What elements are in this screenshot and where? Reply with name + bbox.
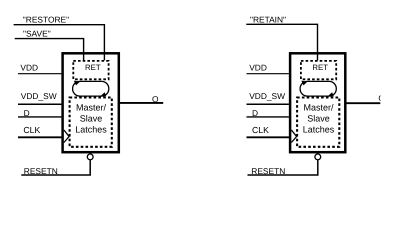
wire VDD (U2) bbox=[247, 73, 289, 75]
flip-flop block U1 outline bbox=[63, 53, 119, 152]
wire RESETN bbox=[21, 160, 90, 175]
wire VDD_SW (U2) bbox=[247, 103, 289, 105]
master/slave latches box (U2) bbox=[297, 98, 339, 147]
data-exchange loop between RET and latches (U2) bbox=[300, 81, 336, 96]
wire RETAIN net bbox=[246, 24, 317, 60]
svg-text:"SAVE": "SAVE" bbox=[23, 29, 51, 39]
loop arrowhead upper-left bbox=[74, 81, 80, 86]
svg-text:RESETN: RESETN bbox=[251, 166, 285, 176]
retention latch box RET (U1) bbox=[73, 61, 108, 79]
wire VDD bbox=[18, 73, 61, 75]
inversion bubble on RESETN pin (U2) bbox=[315, 154, 321, 160]
master/slave latches box (U1) bbox=[70, 98, 112, 147]
svg-text:"RETAIN": "RETAIN" bbox=[250, 14, 286, 24]
wire SAVE net bbox=[15, 39, 84, 61]
wire Q output (U2, clipped) bbox=[345, 102, 380, 104]
wire RESTORE net bbox=[14, 25, 105, 61]
svg-text:CLK: CLK bbox=[252, 125, 269, 135]
pin label Q (U2, clipped at figure edge) bbox=[378, 93, 385, 103]
svg-text:CLK: CLK bbox=[23, 125, 40, 135]
svg-text:Master/: Master/ bbox=[303, 102, 334, 112]
svg-text:VDD_SW: VDD_SW bbox=[249, 91, 285, 101]
svg-text:Latches: Latches bbox=[75, 124, 107, 134]
loop arrowhead upper-left (U2) bbox=[301, 81, 307, 86]
wire VDD_SW bbox=[18, 103, 61, 105]
wire D (U2) bbox=[247, 116, 289, 118]
loop arrowhead lower-right (U2) bbox=[328, 92, 334, 96]
flip-flop block U2 outline bbox=[290, 53, 345, 152]
svg-text:Q: Q bbox=[152, 94, 159, 104]
svg-text:RET: RET bbox=[85, 63, 101, 72]
svg-text:VDD: VDD bbox=[249, 62, 267, 72]
data-exchange loop between RET and latches bbox=[73, 81, 109, 96]
svg-text:VDD: VDD bbox=[20, 62, 38, 72]
wire CLK bbox=[18, 136, 63, 138]
clock input triangle on U2 bbox=[291, 130, 296, 143]
wire CLK (U2) bbox=[247, 136, 291, 138]
inversion bubble on RESETN pin bbox=[87, 154, 93, 160]
svg-text:D: D bbox=[252, 108, 258, 118]
svg-text:D: D bbox=[24, 108, 30, 118]
loop arrowhead lower-right bbox=[101, 92, 107, 96]
svg-text:VDD_SW: VDD_SW bbox=[21, 91, 57, 101]
wire D bbox=[18, 116, 61, 118]
svg-text:RET: RET bbox=[312, 63, 328, 72]
clock input triangle on U1 bbox=[64, 130, 69, 143]
wire Q output bbox=[119, 102, 163, 104]
svg-text:Latches: Latches bbox=[303, 124, 335, 134]
svg-text:"RESTORE": "RESTORE" bbox=[23, 14, 69, 24]
svg-text:Slave: Slave bbox=[80, 113, 103, 123]
svg-text:Slave: Slave bbox=[307, 113, 330, 123]
svg-text:RESETN: RESETN bbox=[24, 166, 58, 176]
svg-text:Master/: Master/ bbox=[76, 102, 107, 112]
retention latch box RET (U2) bbox=[301, 61, 336, 79]
wire RESETN (U2) bbox=[248, 160, 318, 175]
